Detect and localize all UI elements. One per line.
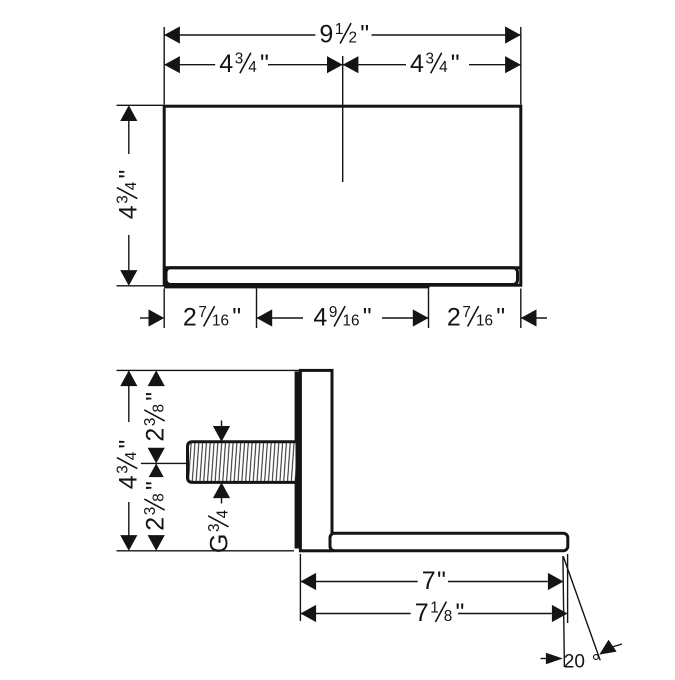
svg-text:4: 4 [123, 451, 140, 460]
dimension 2 7/16 inch right (arrow outside) [521, 309, 537, 326]
20 degree slanted line [563, 557, 600, 661]
svg-text:2: 2 [142, 428, 170, 442]
side view: escutcheon plate rectangle [300, 370, 332, 550]
extension line at wall face (7 inch dims) [299, 554, 301, 621]
top view: spout front bar (rounded strip) [166, 268, 518, 285]
20 degree reference vertical line [563, 556, 565, 667]
extension line bottom (side dims) [117, 550, 295, 552]
dimension 4 3/4 inch height of top view [120, 105, 137, 121]
svg-text:": " [260, 50, 269, 78]
svg-text:2: 2 [183, 304, 197, 332]
svg-text:8: 8 [151, 404, 168, 413]
svg-text:7: 7 [415, 599, 429, 627]
svg-text:9: 9 [329, 304, 338, 321]
svg-text:16: 16 [212, 312, 229, 329]
label 2 7/16" right [443, 304, 509, 332]
svg-text:3: 3 [115, 195, 132, 204]
svg-text:": " [437, 567, 446, 595]
svg-text:3: 3 [142, 507, 159, 516]
svg-text:4: 4 [439, 59, 448, 76]
svg-text:4: 4 [410, 50, 424, 78]
svg-text:3: 3 [426, 51, 435, 68]
extension line x=428 (bottom dims) [428, 289, 430, 329]
svg-text:1: 1 [335, 21, 344, 38]
svg-text:1: 1 [430, 599, 439, 616]
dimension 7 inch reach [300, 573, 316, 590]
extension line left (bottom dims) [163, 289, 165, 329]
svg-text:7: 7 [198, 304, 207, 321]
extension line at spout tip (7 1/8) [567, 554, 569, 623]
svg-text:7: 7 [422, 567, 436, 595]
svg-text:4: 4 [214, 509, 231, 518]
dimension 2 7/16 inch left (arrow outside) [140, 317, 150, 319]
dimension 4 9/16 inch middle [257, 309, 273, 326]
svg-text:": " [232, 304, 241, 332]
svg-text:7: 7 [462, 304, 471, 321]
svg-text:3: 3 [206, 523, 223, 532]
svg-text:20: 20 [564, 651, 585, 672]
extension line right (top dims) [520, 27, 522, 105]
svg-text:4: 4 [313, 304, 327, 332]
label 4 3/4" side [114, 436, 142, 494]
svg-text:": " [451, 50, 460, 78]
svg-text:": " [114, 440, 142, 449]
svg-text:8: 8 [151, 493, 168, 502]
svg-text:G: G [206, 534, 234, 553]
svg-text:": " [142, 392, 170, 401]
svg-text:3: 3 [235, 51, 244, 68]
svg-text:4: 4 [248, 59, 257, 76]
svg-text:16: 16 [476, 312, 493, 329]
svg-text:16: 16 [343, 312, 360, 329]
top view: spout body outline (plan view) [164, 106, 521, 285]
dimension 2 3/8 inch lower [148, 463, 165, 479]
label 2 7/16" left [179, 304, 245, 332]
label 2 3/8" lower [142, 477, 170, 535]
svg-text:4: 4 [114, 205, 142, 219]
label 4 3/4" right [406, 50, 464, 78]
dimension 7 1/8 inch overall reach [300, 605, 316, 622]
arrow to stud bottom edge [213, 482, 230, 498]
20 degree angle arrow right (on slanted line) [599, 640, 616, 655]
svg-text:2: 2 [447, 304, 461, 332]
svg-text:°: ° [592, 650, 601, 674]
side view: horizontal spout bar [330, 533, 568, 551]
dimension 4 3/4 inch overall height side view [120, 370, 137, 386]
dimension 4 3/4 inch right half [343, 56, 359, 73]
svg-text:8: 8 [444, 608, 453, 625]
extension line x=256 (bottom dims) [256, 289, 258, 329]
label 7 1/8" [411, 599, 469, 627]
extension line top (left height dim) [117, 104, 164, 106]
svg-text:2: 2 [142, 517, 170, 531]
label 4 3/4" left [215, 50, 273, 78]
label 7" [418, 567, 450, 595]
svg-text:4: 4 [123, 181, 140, 190]
svg-text:": " [496, 304, 505, 332]
20 degree angle arrow left [541, 658, 549, 660]
svg-text:": " [360, 21, 369, 49]
label 9 1/2" [315, 21, 373, 49]
dimension 4 3/4 inch left half [164, 56, 180, 73]
label G 3/4 [206, 509, 234, 553]
dimension 9 1/2 inch overall width [164, 26, 180, 43]
svg-text:3: 3 [115, 465, 132, 474]
extension line top (side dims) [117, 369, 300, 371]
side view: wall flange thick face line [295, 372, 300, 549]
extension line stud centerline [117, 462, 186, 464]
arrow to stud top edge [221, 421, 223, 428]
label 4 3/4" vertical [114, 166, 142, 224]
label 2 3/8" upper [142, 388, 170, 446]
svg-text:": " [142, 481, 170, 490]
svg-text:3: 3 [142, 418, 159, 427]
dimension 2 3/8 inch upper [148, 370, 165, 386]
svg-text:": " [363, 304, 372, 332]
extension line bottom (left height dim) [117, 285, 164, 287]
extension line left (top dims) [163, 27, 165, 105]
centerline of top view [342, 56, 344, 182]
svg-text:4: 4 [114, 475, 142, 489]
svg-text:9: 9 [319, 21, 333, 49]
top view: plate lower edge line (full width) [164, 266, 521, 269]
svg-text:2: 2 [349, 29, 358, 46]
svg-text:4: 4 [219, 50, 233, 78]
side view: threaded connector stud G3/4 (hatched) [188, 442, 298, 483]
top view: lower edge of body behind bar [164, 286, 429, 289]
label 4 9/16" [309, 304, 375, 332]
svg-text:": " [114, 170, 142, 179]
extension line right (bottom dims) [520, 289, 522, 329]
